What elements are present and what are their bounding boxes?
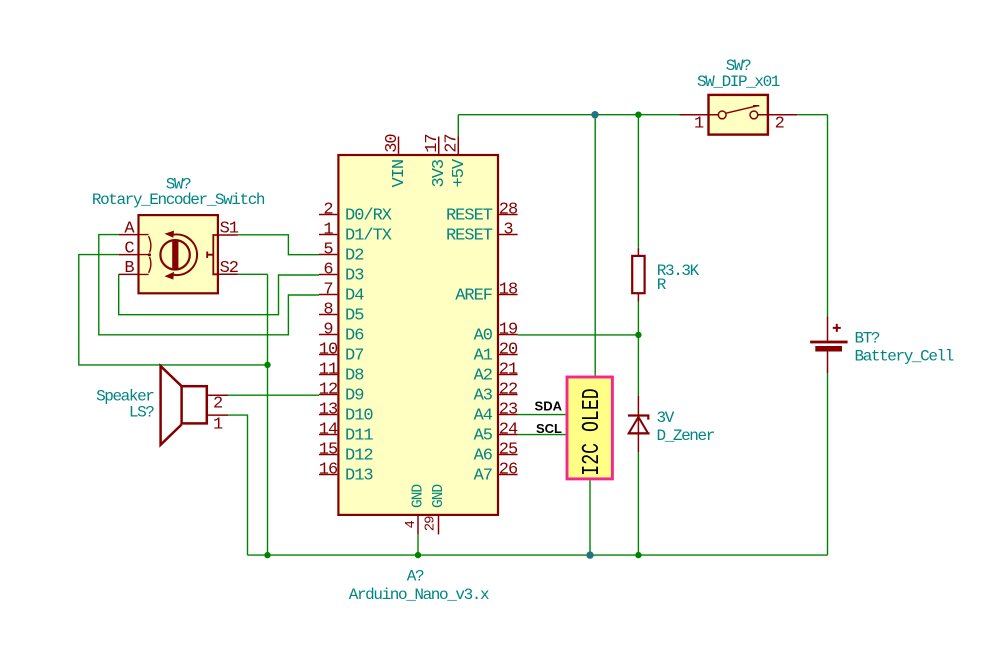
wire GND net: OLED GND drop [589, 480, 591, 555]
battery BT? stub bottom [827, 352, 829, 374]
svg-text:1: 1 [694, 114, 704, 133]
svg-text:C: C [124, 239, 134, 258]
pin 3 (RESET) stub [499, 234, 518, 236]
pin 18 (AREF) stub [499, 294, 518, 296]
speaker LS? horn [161, 366, 182, 445]
pin C stub [119, 254, 138, 256]
svg-text:D7: D7 [345, 346, 363, 365]
svg-text:12: 12 [319, 381, 337, 400]
svg-text:7: 7 [323, 281, 332, 300]
svg-text:D12: D12 [345, 446, 373, 465]
svg-text:26: 26 [499, 461, 518, 480]
wire +5V net: battery drop [827, 115, 829, 317]
rotary encoder rotation arc [172, 235, 198, 276]
svg-text:3V: 3V [657, 409, 675, 427]
junction C/S2/GND [264, 362, 270, 368]
svg-text:D11: D11 [345, 426, 373, 445]
wire B net: encoder B to D3 [119, 274, 319, 314]
rotary arc arrowhead bottom [165, 272, 175, 280]
wire +5V net: resistor drop [637, 115, 639, 248]
wire A0 net: resistor to zener [637, 302, 639, 396]
pin 20 (A1) stub [499, 354, 518, 356]
speaker pin 2 stub [208, 394, 228, 396]
speaker pin 1 stub [208, 414, 228, 416]
svg-text:LS?: LS? [129, 404, 154, 422]
svg-text:Battery_Cell: Battery_Cell [855, 348, 954, 366]
zener cathode bar [628, 416, 648, 420]
svg-text:D0/RX: D0/RX [345, 206, 392, 225]
svg-text:D1/TX: D1/TX [345, 226, 392, 245]
svg-text:13: 13 [319, 401, 338, 420]
svg-text:A6: A6 [474, 446, 493, 465]
pin 15 (D12) stub [319, 454, 337, 456]
pin 10 (D7) stub [319, 354, 337, 356]
pin 1 (D1/TX) stub [319, 234, 337, 236]
junction rail/OLED (teal) [586, 551, 593, 558]
pin 17 (3V3) stub [438, 137, 440, 154]
svg-text:A1: A1 [474, 346, 493, 365]
pin 24 (A5) stub [499, 434, 518, 436]
wire +5V net: OLED VCC drop [594, 115, 596, 376]
svg-text:VIN: VIN [390, 160, 409, 188]
wire A net: encoder A to D4 [99, 235, 319, 335]
resistor R stub bottom [637, 293, 639, 302]
svg-text:10: 10 [319, 341, 338, 360]
pin 16 (D13) stub [319, 474, 337, 476]
pin 14 (D11) stub [319, 434, 337, 436]
wire +5V net: top horizontal [458, 114, 679, 116]
svg-text:BT?: BT? [855, 330, 880, 348]
pin S2 stub [219, 273, 238, 275]
svg-text:A0: A0 [474, 326, 493, 345]
wire S1 net: encoder S1 to D2 [238, 235, 319, 255]
wire S2 net: encoder S2 right [238, 273, 268, 275]
rotary encoder center bar [172, 241, 178, 269]
svg-text:A: A [124, 220, 135, 239]
wire C net: encoder C to left [79, 255, 268, 365]
junction rail/S2 [264, 552, 270, 558]
rotary arc arrowhead top [165, 231, 175, 238]
svg-text:8: 8 [323, 301, 333, 320]
svg-text:D8: D8 [345, 366, 364, 385]
resistor R body [632, 256, 644, 293]
dip switch left contact circle [718, 111, 726, 119]
resistor R stub top [637, 248, 639, 256]
rotary encoder common dot [148, 253, 151, 256]
svg-text:SDA: SDA [535, 399, 563, 414]
pin 19 (A0) stub [499, 334, 518, 336]
wire SDA net [518, 414, 566, 416]
wire +5V net: pin27 up [457, 115, 459, 137]
wire +5V net: DIP pin2 to battery corner [797, 114, 828, 116]
battery BT? stub top [827, 316, 829, 340]
svg-text:18: 18 [499, 281, 518, 300]
junction A0/zener [635, 332, 641, 338]
svg-text:D_Zener: D_Zener [657, 427, 715, 445]
battery positive plate [810, 341, 848, 344]
svg-text:A4: A4 [474, 406, 493, 425]
svg-text:S1: S1 [220, 220, 239, 239]
svg-text:24: 24 [499, 421, 518, 440]
zener diode D_Zener stub through [637, 396, 639, 452]
svg-text:A5: A5 [474, 426, 493, 445]
pin 9 (D6) stub [319, 334, 337, 336]
svg-text:1: 1 [213, 416, 223, 435]
wire GND net: S2/C drop [267, 274, 269, 555]
arduino A1 body Arduino_Nano_v3.x [338, 155, 498, 515]
rotary encoder common contact lines [137, 235, 149, 275]
svg-text:1: 1 [323, 221, 333, 240]
dip switch lever [726, 106, 759, 114]
battery plus sign [833, 324, 841, 332]
svg-text:AREF: AREF [455, 286, 492, 305]
svg-text:27: 27 [443, 134, 462, 152]
junction +5V/resistor [635, 112, 641, 118]
svg-text:A?: A? [407, 568, 424, 586]
battery negative plate [815, 346, 842, 352]
svg-text:GND: GND [411, 485, 427, 508]
svg-text:D13: D13 [345, 466, 373, 485]
pin 29 (GND) stub [438, 516, 440, 535]
pin A stub [119, 234, 138, 236]
wire A0 net: horizontal from pin19 [518, 334, 639, 336]
svg-text:A3: A3 [474, 386, 493, 405]
pin 8 (D5) stub [319, 314, 337, 316]
rotary switch bracket S1-S2 [207, 235, 219, 274]
svg-text:RESET: RESET [446, 226, 493, 245]
wire GND net: arduino pin4 drop [417, 534, 419, 555]
svg-text:3V3: 3V3 [430, 159, 449, 187]
svg-text:B: B [124, 259, 134, 278]
pin 6 (D3) stub [319, 274, 337, 276]
svg-text:D2: D2 [345, 246, 363, 265]
svg-text:2: 2 [775, 115, 784, 134]
pin 25 (A6) stub [499, 454, 518, 456]
pin 21 (A2) stub [499, 374, 518, 376]
dip switch right contact circle [750, 111, 758, 119]
pin 12 (D9) stub [319, 394, 337, 396]
pin 23 (A4) stub [499, 414, 518, 416]
wire GND net: zener to rail [637, 452, 639, 555]
svg-text:19: 19 [499, 321, 518, 340]
svg-text:2: 2 [323, 201, 332, 220]
rotary encoder contact arcs [149, 236, 151, 273]
svg-text:14: 14 [319, 421, 338, 440]
svg-text:23: 23 [499, 401, 518, 420]
svg-text:SCL: SCL [536, 421, 562, 436]
speaker LS? body box [182, 386, 207, 423]
pin 11 (D8) stub [319, 374, 337, 376]
svg-text:D10: D10 [345, 406, 373, 425]
svg-text:30: 30 [383, 134, 402, 153]
svg-text:+5V: +5V [450, 158, 469, 187]
pin B stub [119, 273, 138, 275]
wire GND net: bottom rail [248, 554, 828, 556]
svg-text:20: 20 [499, 341, 518, 360]
pin S1 stub [219, 234, 238, 236]
zener triangle [629, 417, 648, 433]
svg-text:21: 21 [499, 361, 518, 380]
junction rail/pin4 [415, 552, 421, 558]
svg-text:D9: D9 [345, 386, 364, 405]
svg-text:5: 5 [323, 241, 333, 260]
svg-text:2: 2 [213, 394, 222, 413]
svg-text:I2C OLED: I2C OLED [579, 388, 606, 475]
svg-text:A2: A2 [474, 366, 492, 385]
pin 30 (VIN) stub [398, 137, 400, 154]
dip pin 1 stub [679, 114, 718, 116]
svg-text:D6: D6 [345, 326, 364, 345]
zener anode base line [628, 432, 650, 434]
svg-text:25: 25 [499, 441, 518, 460]
svg-text:Rotary_Encoder_Switch: Rotary_Encoder_Switch [92, 191, 265, 209]
pin 5 (D2) stub [319, 254, 337, 256]
svg-text:17: 17 [423, 134, 442, 152]
rotary encoder circle [160, 240, 189, 269]
svg-text:Arduino_Nano_v3.x: Arduino_Nano_v3.x [349, 586, 489, 604]
dip pin 2 stub [758, 114, 797, 116]
pin 13 (D10) stub [319, 414, 337, 416]
wire GND net: speaker pin1 drop [228, 415, 248, 555]
svg-text:A7: A7 [474, 466, 492, 485]
svg-text:16: 16 [319, 461, 338, 480]
junction +5V/OLED (teal) [591, 111, 598, 118]
svg-text:15: 15 [319, 441, 338, 460]
pin 7 (D4) stub [319, 294, 337, 296]
wire speaker pin2 to D9 [228, 394, 319, 396]
svg-text:D4: D4 [345, 286, 364, 305]
svg-text:4: 4 [403, 521, 419, 529]
svg-text:22: 22 [499, 381, 517, 400]
svg-text:SW_DIP_x01: SW_DIP_x01 [697, 73, 780, 91]
svg-text:28: 28 [499, 201, 518, 220]
pin 4 (GND) stub [417, 516, 419, 535]
I2C OLED module body [567, 377, 612, 479]
svg-text:9: 9 [323, 321, 333, 340]
pin 26 (A7) stub [499, 474, 518, 476]
svg-text:D3: D3 [345, 266, 364, 285]
wire GND net: battery bottom drop [827, 373, 829, 555]
svg-text:GND: GND [431, 485, 447, 508]
svg-text:6: 6 [323, 261, 333, 280]
svg-text:11: 11 [319, 361, 338, 380]
svg-text:RESET: RESET [446, 206, 493, 225]
wire SCL net [518, 434, 566, 436]
pin 2 (D0/RX) stub [319, 214, 337, 216]
pin 22 (A3) stub [499, 394, 518, 396]
pin 28 (RESET) stub [499, 214, 518, 216]
svg-text:3: 3 [503, 221, 513, 240]
svg-text:S2: S2 [220, 259, 238, 278]
junction rail/zener [635, 552, 641, 558]
svg-text:D5: D5 [345, 306, 364, 325]
svg-text:29: 29 [423, 516, 439, 531]
rotary encoder SW? body [139, 215, 218, 293]
pin 27 (+5V) stub [457, 137, 459, 154]
dip switch SW? body SW_DIP_x01 [709, 95, 768, 135]
